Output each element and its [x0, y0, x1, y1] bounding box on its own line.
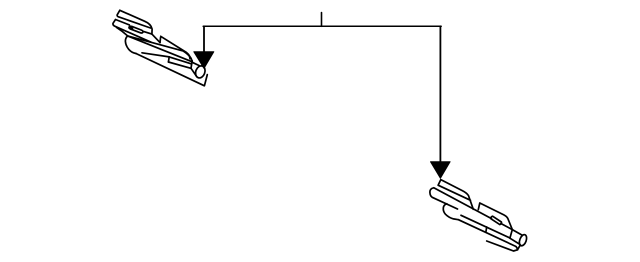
rubber top edge — [461, 215, 510, 238]
cylinder ellipse — [194, 65, 207, 80]
cylinder top — [512, 230, 522, 236]
arrowhead to part 2 — [431, 162, 451, 178]
slot tick — [131, 27, 133, 29]
beam upper crease — [117, 27, 128, 36]
oval slot — [491, 216, 502, 224]
spoiler flap 2 — [160, 36, 190, 59]
beam left rounded corner — [443, 204, 458, 220]
fin 1 (top) — [117, 10, 152, 34]
rubber tick — [485, 227, 488, 232]
cylinder bottom — [510, 238, 519, 244]
wire: right drop to part 2 — [439, 26, 441, 162]
wire: horizontal bracket — [203, 25, 441, 27]
oval slot — [129, 26, 143, 33]
tube with round cap — [430, 188, 512, 230]
beam left rounded corner — [125, 36, 136, 54]
rubber mid line — [142, 53, 169, 57]
cylinder left tick — [191, 61, 192, 68]
beam bottom edge to tip — [136, 54, 207, 86]
rubber tick 1 — [167, 57, 170, 62]
node 1: callout tick — [321, 13, 323, 27]
rubber tube bottom — [168, 62, 191, 68]
beam top edge B — [128, 36, 193, 62]
rubber strip lower line — [487, 241, 518, 251]
spoiler flap — [478, 203, 512, 230]
rubber tube top — [169, 57, 191, 64]
part 1: wiper blade (upper left) — [113, 10, 207, 86]
cylinder left tick — [510, 230, 512, 239]
beam top edge A — [128, 36, 193, 61]
cylinder top — [192, 62, 199, 65]
fin 1 (top) — [438, 180, 473, 210]
beam bottom edge — [458, 220, 520, 250]
cylinder ellipse — [518, 234, 528, 247]
cylinder bottom — [191, 68, 196, 75]
fin 2 (lower) — [113, 20, 160, 43]
part 2: wiper blade (lower right) — [430, 180, 528, 251]
wire: left drop to part 1 — [203, 26, 205, 53]
arrowhead to part 1 — [194, 52, 214, 69]
